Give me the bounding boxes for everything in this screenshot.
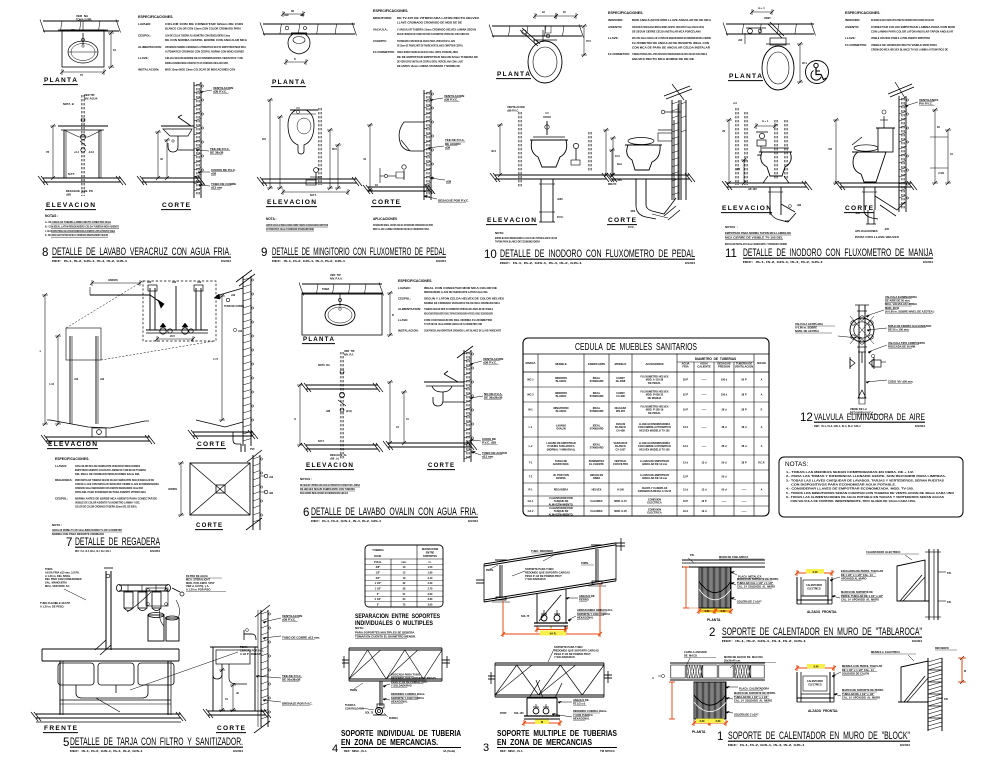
svg-text:REF: MISC., IS-1.: REF: MISC., IS-1. (344, 749, 368, 753)
svg-text:MOD. E-15: MOD. E-15 (614, 500, 627, 503)
svg-text:P L A N T A: P L A N T A (303, 336, 335, 343)
svg-text:MCA DE 32mm ANGULAR LATON DE R: MCA DE 32mm ANGULAR LATON DE REBOSADERO … (632, 36, 711, 40)
svg-text:M: M (964, 670, 966, 673)
svg-text:STANDARD: STANDARD (590, 447, 604, 450)
svg-text:SOPORTE DE CALENTADOR EN M: SOPORTE DE CALENTADOR EN MURO DE "BLOCK" (728, 730, 910, 742)
detail 10 planta flux (520, 26, 551, 46)
detail 2 side wall (925, 549, 941, 620)
detail 10 corte roof-x (664, 84, 692, 100)
svg-text:CODO 'VA' d50 mm.: CODO 'VA' d50 mm. (888, 379, 914, 383)
svg-text:(d41): (d41) (346, 410, 352, 413)
central table CEDULA DE MUEBLES SANITARIOS (523, 338, 769, 516)
svg-text:TORN.: TORN. (581, 562, 589, 565)
svg-text:DETALLE DE INODORO CON FLU: DETALLE DE INODORO CON FLUXOMETRO DE PED… (500, 248, 695, 260)
svg-text:C O R T E: C O R T E (197, 441, 225, 448)
detail 6 corte counter (424, 371, 464, 392)
svg-text:H-100: H-100 (617, 489, 624, 492)
detail 6 title (303, 506, 478, 523)
svg-text:MCA. VER MOD. AC: MCA. VER MOD. AC (45, 584, 70, 588)
svg-text:CALOREX: CALOREX (590, 500, 603, 503)
svg-text:50 d: 50 d (721, 476, 726, 479)
svg-text:CALENTADOR: CALENTADOR (807, 680, 823, 683)
detail 8 corte vent dash (197, 84, 199, 196)
detail 1 planta leaders (652, 650, 776, 716)
detail 3 lower end-ticks (488, 671, 612, 684)
svg-text:L-2: L-2 (529, 445, 533, 448)
detail 9 corte wall (424, 90, 434, 200)
svg-text:——: —— (742, 489, 748, 492)
svg-text:AGUA: AGUA (700, 361, 708, 365)
svg-text:T-2: T-2 (529, 476, 533, 479)
detail 11 especificaciones (845, 11, 956, 52)
svg-text:N.P.T.: N.P.T. (318, 440, 325, 443)
svg-text:NOTAS:: NOTAS: (785, 461, 809, 468)
svg-text:0.30: 0.30 (705, 610, 710, 613)
svg-text:FLUXOMETRO:: FLUXOMETRO: (373, 50, 395, 54)
svg-text:DE 38x38x38: DE 38x38x38 (484, 395, 503, 399)
svg-text:Y CON TUERCA: Y CON TUERCA (573, 713, 593, 717)
detail 9 elev pedal (306, 168, 322, 185)
svg-text:ASIENTO:: ASIENTO: (845, 25, 859, 29)
svg-text:ELECTRICO: ELECTRICO (807, 588, 820, 590)
detail 2 planta hatch (699, 567, 731, 608)
detail 7 nota (52, 523, 123, 536)
svg-text:P.C.P.: P.C.P. (758, 462, 765, 465)
svg-text:MOD. 38 W: MOD. 38 W (885, 306, 899, 310)
svg-text:70.5: 70.5 (586, 40, 591, 43)
detail 11 corte floor (835, 181, 917, 190)
svg-text:FLUXOMETRO DE ANGULAR DE RESOR: FLUXOMETRO DE ANGULAR DE RESORTE IDEAL C… (632, 41, 709, 45)
detail 5 labels-right (186, 574, 226, 592)
svg-text:STANDARD: STANDARD (590, 380, 604, 383)
detail 8 corte leaders (196, 86, 236, 190)
detail 6 elev dims (294, 383, 347, 460)
svg-text:NORMA DE CROMADO VERACRUZ DE D: NORMA DE CROMADO VERACRUZ DE DE MCA CROM… (424, 301, 501, 305)
svg-text:(A 0.60 m. SOBRE NIVEL DE AZOT: (A 0.60 m. SOBRE NIVEL DE AZOTEA ) (885, 309, 934, 313)
svg-text:CON PORCELANA EMPOTRAR CROMADO: CON PORCELANA EMPOTRAR CROMADO LLAVE BLA… (424, 328, 501, 332)
svg-text:E L E V A C I O N: E L E V A C I O N (46, 202, 96, 209)
detail 8 planta sink oval (68, 41, 98, 63)
svg-text:NIVEL DE AZOTEA: NIVEL DE AZOTEA (795, 329, 819, 333)
svg-text:0.40: 0.40 (814, 666, 819, 669)
svg-text:DE MANIJA: DE MANIJA (648, 397, 662, 400)
svg-text:DE VERACRUZ INSTALAR CESPOL ID: DE VERACRUZ INSTALAR CESPOL IDEAL PORCEL… (397, 59, 463, 63)
svg-text:MUEBLE: MUEBLE (555, 362, 567, 366)
svg-text:TOMA SUPR.: TOMA SUPR. (76, 18, 92, 22)
svg-text:CON VALVULA DE CONTROL INDEPEN: CON VALVULA DE CONTROL INDEPENDIENTE, TI… (786, 499, 916, 503)
detail 6 especificaciones (398, 279, 504, 332)
detail 1 alzado (797, 672, 834, 702)
svg-text:19 P: 19 P (683, 409, 688, 412)
detail 1 alzado red-dim (795, 664, 836, 671)
detail 9 elev pipes (296, 108, 321, 185)
svg-text:13 P: 13 P (683, 476, 688, 479)
svg-text:P.V.C.: P.V.C. (628, 226, 635, 229)
svg-text:CAPELA ANCHOR: CAPELA ANCHOR (684, 650, 707, 654)
svg-text:——: —— (702, 445, 708, 448)
svg-text:VISIBLE BORDE TUBERIA BLANCO D: VISIBLE BORDE TUBERIA BLANCO DEL IDEAL C… (397, 50, 458, 54)
svg-text:SOPORTE DE CALENTADOR EN M: SOPORTE DE CALENTADOR EN MURO DE "TABLAR… (722, 626, 922, 638)
svg-text:HELVEX: HELVEX (592, 489, 602, 492)
svg-text:LAVABO:: LAVABO: (138, 22, 151, 26)
detail 1 alzado leader (832, 664, 884, 699)
svg-text:3/4": 3/4" (376, 577, 381, 580)
svg-text:38 d: 38 d (721, 409, 726, 412)
svg-text:C O R T E: C O R T E (608, 217, 636, 224)
svg-text:E L E V A C I O N: E L E V A C I O N (306, 462, 354, 469)
detail 5 sanitizer (127, 588, 180, 641)
svg-text:SEGUN CROMADO DE CONECTAR MOD: SEGUN CROMADO DE CONECTAR MOD FLUXOMETRO… (397, 32, 469, 36)
svg-text:——: —— (702, 379, 708, 382)
detail 1 side label (936, 698, 949, 701)
svg-text:1/2": 1/2" (376, 572, 381, 575)
svg-text:C O R T E: C O R T E (196, 522, 222, 529)
detail 7 regadera shower-arm (90, 278, 164, 308)
svg-text:INDIVIDUALES O MULTIPLES: INDIVIDUALES O MULTIPLES (355, 620, 434, 627)
svg-text:d13: d13 (100, 378, 105, 381)
svg-text:NOTA DA: NOTA DA (318, 364, 330, 367)
svg-text:DE CON NORMA CESPOL BORDE CON: DE CON NORMA CESPOL BORDE CON ANGULAR MC… (165, 38, 248, 42)
svg-text:ROSCADA PARA TUBO: ROSCADA PARA TUBO (391, 673, 420, 677)
svg-text:CONECTAR COLOR EMPOTRAR LAMINA: CONECTAR COLOR EMPOTRAR LAMINA PARA CON … (871, 25, 956, 29)
detail 6 planta counter (302, 293, 382, 335)
detail 8 planta faucet (70, 14, 92, 47)
detail 8 elevacion notes-txt (63, 93, 98, 197)
detail 11 corte dims (829, 108, 954, 185)
svg-text:NOTA B: NOTA B (63, 102, 74, 106)
detail 9 nota (266, 217, 328, 231)
detail 10 planta label (496, 71, 531, 79)
svg-text:to + 1: to + 1 (762, 120, 769, 123)
svg-text:TUBULAR DE 1 1/2" x 1/2": TUBULAR DE 1 1/2" x 1/2" (842, 692, 875, 696)
svg-text:A 1/2 P - DN ESPL.: A 1/2 P - DN ESPL. (240, 652, 263, 656)
detail 11 elev flux (754, 120, 777, 157)
svg-text:LLAVE:: LLAVE: (398, 318, 408, 322)
svg-text:MOD ANGULAR DE MOD LLAVE ANGUL: MOD ANGULAR DE MOD LLAVE ANGULAR DE DE M… (632, 18, 712, 22)
svg-text:1.50: 1.50 (428, 566, 433, 569)
svg-text:d19: d19 (284, 13, 289, 17)
svg-text:DETALLE DE REGADERA: DETALLE DE REGADERA (75, 536, 160, 548)
svg-text:13 d: 13 d (683, 489, 688, 492)
svg-text:EMPOTRAR PARA NORMA TAPON MCA: EMPOTRAR PARA NORMA TAPON MCA LAMINA DE (725, 231, 791, 235)
svg-text:Y ANGULAR TUBERIA 13mm CROMADO: Y ANGULAR TUBERIA 13mm CROMADO HELVEX LA… (397, 27, 476, 31)
detail 8 planta label (43, 77, 78, 85)
svg-text:2.40: 2.40 (428, 582, 433, 585)
svg-text:N.P.T.: N.P.T. (68, 172, 75, 176)
svg-text:STANDARD: STANDARD (590, 410, 604, 413)
svg-text:4: 4 (332, 743, 338, 755)
svg-text:NIV. P.A.U.: NIV. P.A.U. (330, 276, 343, 280)
svg-text:28.1: 28.1 (802, 62, 807, 65)
svg-text:INDICACIONES REBOSADERO VISIBL: INDICACIONES REBOSADERO VISIBLE TAPON EC… (424, 311, 493, 315)
svg-text:MOD 13mm MOD 13mm COLOCAR DE I: MOD 13mm MOD 13mm COLOCAR DE INDICACIONE… (165, 68, 235, 72)
detail 5 corte faucet (244, 629, 256, 640)
svg-text:Y SOLDADURAS: Y SOLDADURAS (525, 577, 546, 581)
svg-text:4A (Sola): 4A (Sola) (443, 749, 455, 753)
svg-text:REF: IS-1, IS-2, GIS-1, IS-4,: REF: IS-1, IS-2, GIS-1, IS-4, IS-2, GIS-… (728, 743, 805, 747)
svg-text:d38: d38 (326, 410, 331, 413)
svg-text:d13: d13 (238, 330, 243, 333)
detail 12 valve body (850, 316, 874, 344)
svg-text:VARIOS: VARIOS (168, 488, 177, 491)
svg-text:d13: d13 (197, 281, 202, 284)
svg-text:10: 10 (484, 249, 497, 261)
svg-text:1: 1 (717, 731, 723, 743)
svg-text:2: 2 (709, 627, 715, 639)
svg-text:EN ZONA DE MERCANCIAS: EN ZONA DE MERCANCIAS (497, 737, 592, 747)
svg-text:ES/004: ES/004 (915, 424, 925, 428)
svg-text:DETALLE DE TARJA CON FILTR: DETALLE DE TARJA CON FILTRO Y SANITIZADO… (70, 736, 243, 748)
detail 2 planta leaders (719, 555, 779, 603)
svg-text:Nod.: Nod. (617, 163, 623, 166)
svg-text:FABRICANTE: FABRICANTE (588, 362, 606, 366)
svg-text:DE 38x38: DE 38x38 (210, 150, 224, 154)
svg-text:ACERO INOX.: ACERO INOX. (553, 463, 570, 466)
svg-text:ABRAZADERA HIDRAULICA,: ABRAZADERA HIDRAULICA, (577, 608, 613, 612)
detail 8 corte trap (168, 136, 194, 152)
svg-text:FILTRO DE AGUA: FILTRO DE AGUA (186, 574, 208, 578)
svg-text:12: 12 (800, 412, 813, 424)
detail 10 elev tank-pipe (543, 113, 551, 135)
svg-text:TM SPOCA: TM SPOCA (600, 749, 615, 753)
svg-text:M: M (541, 721, 543, 724)
svg-text:——: —— (742, 510, 748, 513)
svg-text:d38 P.V.C.: d38 P.V.C. (282, 617, 296, 621)
svg-text:CELDA SEGUN BORDE DE ECONOMIZA: CELDA SEGUN BORDE DE ECONOMIZADORA VERAC… (165, 56, 243, 60)
svg-text:NOTA :: NOTA : (52, 523, 62, 527)
svg-text:LLAVE CROMADO CROMADO DE MOD D: LLAVE CROMADO CROMADO DE MOD DE DE (397, 21, 462, 25)
svg-text:ES/004: ES/004 (233, 749, 243, 753)
svg-text:REF: IS-1, IS-2, GIS-1, IS-4,: REF: IS-1, IS-2, GIS-1, IS-4, IS-2, GIS-… (311, 519, 382, 523)
svg-text:M: M (550, 626, 552, 629)
svg-text:110: 110 (262, 137, 267, 141)
detail 4 title (332, 728, 461, 755)
svg-text:PIA P.V.C.: PIA P.V.C. (919, 101, 933, 105)
svg-text:3.30: 3.30 (428, 598, 433, 601)
svg-text:100 d: 100 d (721, 394, 728, 397)
svg-text:1.80: 1.80 (428, 572, 433, 575)
detail 11 corte vent-dash (902, 98, 904, 210)
svg-text:EL CLIENTE: EL CLIENTE (589, 463, 604, 466)
svg-text:NICHO: NICHO (757, 361, 766, 365)
svg-text:——: —— (702, 426, 708, 429)
svg-text:PESO P-1/2 DE POWER-TRUT: PESO P-1/2 DE POWER-TRUT (391, 680, 428, 684)
svg-text:3.00: 3.00 (428, 593, 433, 596)
svg-text:PERN.: PERN. (486, 569, 494, 572)
detail 10 corte dims (609, 148, 623, 182)
svg-text:TUBO DE COBRE d13 mm.: TUBO DE COBRE d13 mm. (282, 635, 320, 639)
svg-text:WC-2: WC-2 (527, 394, 534, 397)
svg-text:——: —— (702, 394, 708, 397)
svg-text:ES/004: ES/004 (150, 549, 160, 553)
svg-text:d13: d13 (172, 281, 177, 284)
svg-text:0.40: 0.40 (813, 571, 818, 574)
detail 11 corte wall (899, 96, 909, 212)
svg-text:FLUXOMETRO:: FLUXOMETRO: (845, 43, 867, 47)
svg-text:MIN-TD: MIN-TD (608, 183, 617, 186)
detail 10 elev drain (539, 179, 564, 222)
svg-text:VISIBLE CON MOD VISIBLE LATON: VISIBLE CON MOD VISIBLE LATON ASIENTO EM… (871, 36, 931, 40)
svg-text:PESO P-1/2 DE POWER-TRUT: PESO P-1/2 DE POWER-TRUT (525, 574, 562, 578)
detail 10 elev label (486, 217, 537, 225)
svg-text:11: 11 (725, 248, 737, 260)
detail 10 elev bowl (530, 137, 568, 167)
detail 11 aplicaciones (855, 229, 899, 239)
svg-text:PARA DEL PARA STANDARD DE PARA: PARA DEL PARA STANDARD DE PARA ASIENTO V… (75, 490, 147, 494)
svg-text:19 d: 19 d (683, 510, 688, 513)
svg-text:DE DE EMPOTRAR EMPOTRAR SEGUN: DE DE EMPOTRAR EMPOTRAR SEGUN 32mm TUBER… (397, 55, 478, 59)
svg-text:VALVULA TIPO COMPUERTA: VALVULA TIPO COMPUERTA (888, 341, 925, 345)
svg-text:CESPOL:: CESPOL: (55, 496, 68, 500)
detail 8 corte dims (155, 130, 170, 180)
detail 9 planta dim (284, 57, 308, 65)
svg-text:A 1.20 m. POR PISO: A 1.20 m. POR PISO (186, 588, 211, 592)
svg-text:P.B.: P.B. (690, 554, 695, 557)
svg-text:CAL. 14 APOYADO AL MURO: CAL. 14 APOYADO AL MURO (842, 695, 880, 699)
svg-text:VALVULA ACOPLADA: VALVULA ACOPLADA (795, 322, 823, 326)
svg-text:SOLERA DE 1"x1/4": SOLERA DE 1"x1/4" (734, 712, 759, 716)
detail 1 planta label (692, 730, 706, 734)
svg-text:CON MCA DE PARA DE ANGULAR CEL: CON MCA DE PARA DE ANGULAR CELDA INSTALA… (632, 45, 711, 49)
detail 2 alzado red-dim (795, 569, 834, 576)
svg-text:REF: IS-1, IS-2, GIS-1, IS-4,: REF: IS-1, IS-2, GIS-1, IS-4, IS-2, GIS-… (743, 260, 823, 264)
svg-text:d32: d32 (269, 492, 274, 495)
detail 1 planta hatch (694, 682, 726, 719)
detail 8 elevacion dim (46, 124, 56, 180)
svg-text:INSTALACION:: INSTALACION: (398, 328, 419, 332)
svg-text:CALOREX: CALOREX (590, 510, 603, 513)
detail 3 lower red-dim (522, 720, 562, 727)
detail 9 corte floor (363, 185, 435, 194)
detail 10 elev vent (507, 105, 525, 188)
svg-text:DETALLE DE INODORO CON FLU: DETALLE DE INODORO CON FLUXOMETRO DE MAN… (743, 247, 933, 259)
svg-text:E L E V A C I O N: E L E V A C I O N (267, 199, 317, 206)
svg-text:No.4098: No.4098 (616, 380, 626, 383)
detail 8 planta dims (60, 31, 116, 77)
detail 2 planta red-dims (683, 567, 733, 614)
svg-text:INODORO:: INODORO: (608, 18, 623, 22)
svg-text:0.30: 0.30 (700, 720, 705, 723)
svg-text:REDONDO QUE SOPORTA CARGAS: REDONDO QUE SOPORTA CARGAS (391, 676, 436, 680)
detail 10 elev flux (571, 132, 591, 172)
svg-text:C O R T E: C O R T E (372, 199, 400, 206)
svg-text:——: —— (742, 500, 748, 503)
svg-text:38 P: 38 P (741, 462, 746, 465)
detail 3 title (483, 728, 617, 754)
detail 3 sloped hangers (492, 545, 606, 602)
detail 5 labels-left (40, 567, 86, 608)
svg-text:ES/004: ES/004 (685, 261, 695, 265)
svg-text:DRENAJE POR P.V.C.: DRENAJE POR P.V.C. (282, 701, 313, 705)
svg-text:20x20x40 cm.: 20x20x40 cm. (724, 658, 741, 662)
svg-text:TOMA: TOMA (322, 288, 330, 291)
svg-text:P.V.C. d38: P.V.C. d38 (482, 440, 496, 444)
svg-text:BLANCO COLOR CON 13mm CON COLO: BLANCO COLOR CON 13mm CON COLOR CROMADO … (165, 27, 242, 31)
svg-text:P.V.C.: P.V.C. (557, 216, 564, 219)
svg-text:70: 70 (80, 73, 83, 77)
svg-text:ELECTRICO: ELECTRICO (808, 684, 821, 686)
svg-text:-0.12: -0.12 (88, 150, 94, 154)
svg-text:APOYADO AL MURO: APOYADO AL MURO (841, 576, 867, 580)
detail 8 title (42, 246, 231, 263)
svg-text:CA-1057: CA-1057 (615, 448, 626, 451)
svg-text:WS-087: WS-087 (616, 410, 626, 413)
svg-text:6: 6 (303, 507, 309, 519)
svg-text:TAPON PARA BLANCO DE ECONOMIZA: TAPON PARA BLANCO DE ECONOMIZADORA (495, 240, 541, 244)
svg-text:AUTOMATICO CROMADO CON CESPOL: AUTOMATICO CROMADO CON CESPOL NORMA CON … (165, 49, 244, 53)
detail 9 planta fixture (288, 33, 310, 54)
svg-text:13 d: 13 d (683, 426, 688, 429)
detail 3 sloped end-ticks (476, 538, 625, 583)
detail 5 filter cartridges (124, 585, 161, 611)
svg-text:Y SOLDADURAS: Y SOLDADURAS (391, 683, 412, 687)
svg-text:-N00: -N00 (630, 210, 636, 213)
svg-text:A 1.20 m. DEL NIVEL: A 1.20 m. DEL NIVEL (45, 574, 71, 578)
svg-text:ROSCADA DE 50 MM.: ROSCADA DE 50 MM. (888, 344, 916, 348)
svg-text:PLACA CALENTADORA: PLACA CALENTADORA (739, 686, 769, 690)
svg-text:HELVEX MODELO TV-105: HELVEX MODELO TV-105 (639, 429, 670, 432)
svg-text:DE PEDAL: DE PEDAL (648, 382, 661, 385)
detail 11 elev floor (722, 181, 812, 190)
svg-text:——: —— (702, 409, 708, 412)
svg-text:1 1/4": 1 1/4" (375, 582, 383, 585)
detail 1 planta red-dims (669, 682, 728, 726)
svg-text:TUBERIA: TUBERIA (372, 548, 384, 552)
svg-text:P.B.: P.B. (947, 572, 952, 575)
svg-text:VERACRUZ PORCELANA INDICACIONE: VERACRUZ PORCELANA INDICACIONES CESPOL V… (632, 25, 704, 29)
svg-text:C O R T E: C O R T E (162, 202, 190, 209)
svg-text:INODORO:: INODORO: (845, 18, 860, 22)
detail 5 corte floor (203, 709, 271, 718)
detail 8 elevacion floor (38, 176, 126, 185)
detail 6 planta txt (322, 273, 394, 337)
right edge fragment (935, 647, 966, 684)
detail 12 title (800, 411, 925, 428)
detail 5 floor (31, 712, 186, 722)
detail 9 corte leaders (424, 94, 469, 203)
svg-text:CAL. 14 SOLDADO AL MURO: CAL. 14 SOLDADO AL MURO (737, 584, 775, 588)
detail 8 especificaciones (138, 15, 248, 72)
svg-text:A.- DE ANGULAR TUBERIA LAMINA: A.- DE ANGULAR TUBERIA LAMINA RECTO CONE… (45, 220, 111, 224)
detail 11 planta flux (746, 7, 784, 38)
svg-text:FRIA: FRIA (682, 365, 688, 369)
svg-text:CAL. 14 SOLDADO AL MURO: CAL. 14 SOLDADO AL MURO (734, 698, 772, 702)
svg-text:NOTAS :: NOTAS : (45, 214, 58, 218)
svg-text:ES/004: ES/004 (912, 639, 922, 643)
svg-text:50 P: 50 P (741, 379, 746, 382)
detail 4 truss end-ticks (342, 656, 450, 668)
svg-text:MARCO DE SOPORTE DE PERFIL: MARCO DE SOPORTE DE PERFIL (737, 577, 779, 581)
svg-text:LLAVE:: LLAVE: (138, 56, 149, 60)
svg-text:FE 1/2 x d: FE 1/2 x d (573, 701, 586, 705)
svg-text:PLANTA: PLANTA (692, 730, 706, 734)
svg-text:MENSULA DE PERFIL TUBULAR: MENSULA DE PERFIL TUBULAR (842, 664, 882, 668)
detail 10 corte drain (628, 179, 680, 229)
svg-text:DEL PISO CON CONEXIONES: DEL PISO CON CONEXIONES (45, 577, 82, 581)
svg-text:d38 P.V.C.: d38 P.V.C. (483, 360, 497, 364)
svg-text:38 P: 38 P (741, 409, 746, 412)
detail 6 elev pipe (318, 350, 355, 460)
detail 11 corte top-x (888, 82, 914, 98)
svg-text:19 P: 19 P (701, 500, 706, 503)
detail 6 planta label (302, 336, 335, 344)
svg-text:——: —— (722, 500, 728, 503)
svg-text:P L A N T A: P L A N T A (44, 77, 78, 84)
svg-text:DE 13mm DE FABRICANTE DE FABRI: DE 13mm DE FABRICANTE DE FABRICANTE BLAN… (397, 43, 463, 47)
detail 8 corte sink (161, 115, 194, 136)
svg-text:3: 3 (483, 742, 489, 754)
svg-text:50 d: 50 d (721, 462, 726, 465)
